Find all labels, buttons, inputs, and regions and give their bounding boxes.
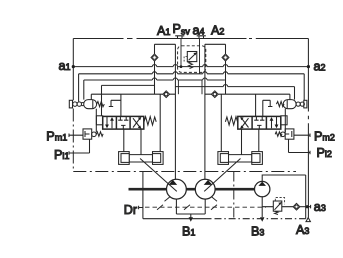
pilot valve PV1 (Pm1)	[83, 129, 103, 139]
check valve V2	[222, 54, 229, 61]
pump P1	[165, 179, 187, 201]
port B3 arrow	[260, 217, 264, 221]
wire LS to left linkage	[159, 94, 161, 151]
pilot pump P3	[255, 181, 270, 196]
port a4 stubs	[197, 36, 206, 39]
wire Pi2	[289, 139, 311, 154]
wire L4b	[175, 85, 294, 87]
port A3 arrow	[306, 218, 310, 222]
wire Pi1	[69, 139, 90, 155]
relief valve U1	[184, 52, 197, 69]
svg-text:Dr: Dr	[124, 203, 137, 217]
boundary dash-dot horizontal	[73, 171, 296, 173]
node Psv drain dot	[180, 65, 183, 68]
wire DV1 to linkage	[124, 129, 141, 155]
svg-text:A3: A3	[296, 223, 309, 237]
wire L3	[84, 78, 225, 80]
wire compensator left to pilot valve	[95, 109, 97, 132]
svg-text:A2: A2	[211, 23, 224, 37]
feedback linkage right (dog-bone)	[218, 152, 263, 165]
pilot relief valve U1 dashed enclosure	[178, 46, 206, 73]
frame right edge	[307, 39, 309, 218]
wire L2 right corner down	[303, 74, 305, 101]
svg-text:Pm1: Pm1	[46, 130, 67, 144]
wire L2	[79, 72, 305, 74]
check valve V1	[151, 54, 158, 61]
svg-text:Pi1: Pi1	[54, 148, 69, 162]
node a3 dot	[306, 205, 309, 208]
feedback linkage left (dog-bone)	[119, 152, 164, 165]
DV2 spring left	[225, 117, 237, 125]
wire valve top left	[120, 94, 122, 116]
wire DV2 to linkage	[242, 129, 259, 155]
wire L4a left corner down	[101, 85, 103, 115]
wire a4 to LS left	[177, 80, 179, 94]
wire LS to right linkage	[220, 94, 222, 151]
wire Pm1	[69, 134, 83, 138]
DV1 cell1 arrows	[107, 117, 112, 128]
frame left edge	[72, 39, 74, 101]
suction line (thick)	[129, 188, 255, 191]
wire pilot feed right corner down	[305, 175, 307, 219]
compensator left assembly	[69, 100, 104, 109]
wire A2 diamond column	[225, 44, 227, 94]
DV1 cell2 blocked	[118, 117, 128, 129]
wire Pm2	[294, 134, 310, 138]
boundary vertical x=142.9	[142, 172, 144, 219]
Dr leader	[139, 206, 143, 209]
svg-text:a3: a3	[314, 200, 326, 214]
drain dashed line Dr	[145, 206, 266, 208]
svg-text:B1: B1	[182, 224, 195, 238]
Dr slant dashes	[157, 205, 217, 210]
a3 leader tick	[308, 205, 310, 209]
wire a4 down	[199, 39, 201, 74]
frame top line with section breaks	[73, 38, 308, 40]
LS line right (y=94.2)	[205, 93, 290, 95]
svg-text:Psv: Psv	[173, 22, 191, 37]
boundary dash-dot vertical mid	[233, 172, 235, 219]
wire pump feed left	[174, 44, 176, 179]
pilot valve PV2 (Pm2)	[275, 129, 294, 139]
wire valve top right	[255, 94, 257, 116]
port Psv stubs	[175, 36, 184, 39]
check valve V4	[211, 91, 218, 98]
svg-text:Pm2: Pm2	[314, 130, 335, 144]
DV2 pilot box right	[281, 116, 287, 125]
wire L4b right corner down	[294, 87, 296, 100]
LS tap hook right	[263, 100, 273, 116]
wire pumps to B1	[176, 199, 205, 218]
svg-text:a2: a2	[314, 59, 326, 73]
wire A1 bridge	[155, 43, 176, 45]
wire compensator right to pilot valve	[284, 109, 286, 132]
DV1 pilot box left	[96, 116, 102, 125]
wire A2 bridge	[205, 43, 226, 45]
wire pilot pump to B3	[261, 197, 263, 217]
wire LS left corner into compensator	[90, 94, 92, 99]
node a2 dot	[307, 65, 310, 68]
wire L4a	[102, 84, 155, 86]
wire L1 a1-a2	[73, 65, 308, 67]
wire L3 left corner down	[83, 80, 85, 100]
DV2 cell2 blocked	[254, 117, 264, 129]
DV2 cell3 arrows	[272, 117, 277, 128]
DV2 cell1 cross arrows	[242, 118, 249, 127]
compensator right assembly	[276, 100, 307, 109]
boundary dash-dot vertical left	[72, 109, 74, 172]
node a1 dot	[72, 65, 75, 68]
wire B3 to relief	[262, 206, 293, 208]
directional valve DV2 body	[238, 116, 281, 129]
wire L2 left corner down	[78, 74, 80, 102]
svg-text:A1: A1	[157, 24, 170, 38]
LS tap hook left	[109, 100, 121, 106]
relief valve U2	[273, 198, 284, 215]
wire pump feed right	[204, 44, 206, 179]
wire pilot pump feed	[262, 175, 306, 181]
directional valve DV1 body	[103, 116, 144, 129]
check valve V5	[293, 203, 300, 210]
port B1 arrow	[189, 217, 193, 221]
bottom line	[143, 218, 212, 220]
wire a3	[300, 206, 309, 208]
LS line left (y=94.2)	[91, 93, 175, 95]
wire LS right corner into compensator	[289, 94, 291, 99]
wire Psv down to drain dot	[180, 39, 182, 66]
DV1 spring right	[144, 117, 156, 125]
pump P2	[195, 179, 217, 201]
lever right to pump	[204, 159, 240, 192]
svg-text:B3: B3	[251, 224, 264, 238]
DV1 cell3 cross arrows	[133, 118, 140, 127]
lever left to pump	[140, 159, 177, 192]
svg-text:a4: a4	[193, 24, 205, 38]
wire a4 to LS right	[201, 80, 203, 94]
check valve V3	[163, 91, 170, 98]
wire A1 diamond column	[154, 44, 156, 94]
svg-text:Pi2: Pi2	[317, 146, 332, 160]
svg-text:a1: a1	[59, 59, 71, 73]
